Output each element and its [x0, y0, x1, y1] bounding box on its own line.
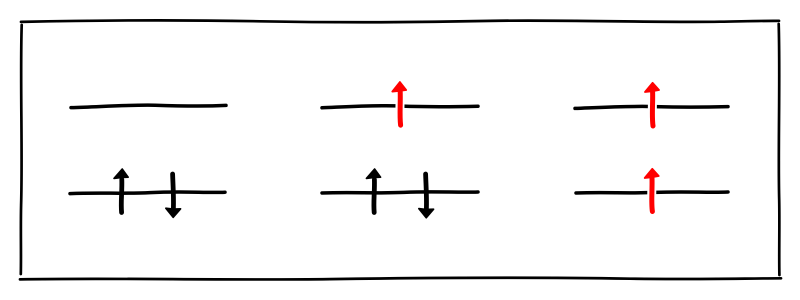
diagram 3 lower level line [576, 192, 728, 193]
diagram 2 spin-up electron arrow (black) [366, 169, 380, 213]
diagram 1 upper level line [71, 105, 226, 108]
frame bottom edge [20, 278, 781, 280]
diagram 1 spin-up electron arrow (black) [114, 169, 128, 213]
diagram 2 upper level line [322, 106, 478, 108]
diagram 2 lower level line [322, 192, 478, 193]
diagram 3 excited spin-up electron arrow (red) [645, 83, 659, 126]
diagram 1 lower level line [70, 192, 225, 194]
diagram 3 upper red arrow white halo [648, 94, 658, 124]
frame right edge [777, 24, 780, 275]
frame left edge [19, 25, 23, 274]
diagram 3 lower red arrow white halo [647, 180, 657, 210]
diagram 2 excited electron white halo [395, 94, 405, 124]
diagram 2 excited spin-up electron arrow (red) [392, 82, 406, 125]
diagram 1 spin-down electron arrow (black) [166, 174, 181, 217]
diagram 3 spin-up electron arrow (red) [645, 169, 659, 212]
frame top edge [21, 20, 779, 22]
diagram 3 upper level line [575, 106, 728, 108]
diagram 2 spin-down electron arrow (black) [419, 174, 434, 218]
